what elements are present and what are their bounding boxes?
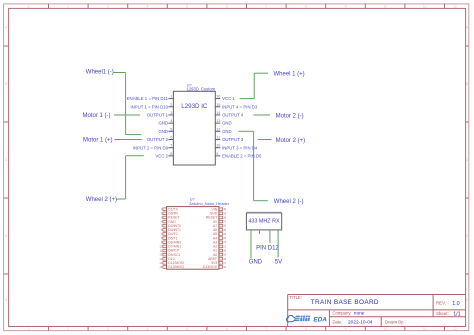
svg-text:GND: GND <box>222 129 232 134</box>
wire Motor 1 (+) to OUTPUT 2 <box>115 139 142 141</box>
svg-text:INPUT 4 = PIN D3: INPUT 4 = PIN D3 <box>222 104 258 109</box>
svg-text:TITLE:: TITLE: <box>289 295 302 300</box>
svg-text:L293D IC: L293D IC <box>181 103 208 110</box>
svg-text:7: 7 <box>265 327 267 331</box>
svg-text:GND: GND <box>249 260 263 266</box>
wire Wheel 2 (+) vertical <box>125 156 127 199</box>
header pin 15 (D12/MISO) <box>159 265 184 269</box>
svg-text:VCC 2: VCC 2 <box>155 153 168 158</box>
svg-text:6: 6 <box>226 5 228 9</box>
svg-text:5: 5 <box>161 224 163 228</box>
svg-text:23: 23 <box>223 236 226 240</box>
svg-text:20: 20 <box>223 249 226 253</box>
svg-text:4: 4 <box>147 5 149 9</box>
svg-text:Drawn By:: Drawn By: <box>385 320 404 325</box>
svg-text:433 MHZ RX: 433 MHZ RX <box>248 218 280 224</box>
IC pin 5 (GND) <box>158 127 173 134</box>
svg-text:Wheel1 (-): Wheel1 (-) <box>86 70 114 76</box>
svg-text:E: E <box>5 298 7 302</box>
svg-text:8: 8 <box>305 327 307 331</box>
RF pin 2 stub <box>259 230 261 234</box>
svg-text:9: 9 <box>161 240 163 244</box>
svg-text:11: 11 <box>423 5 427 9</box>
header pin 7 (D4/T0) <box>161 232 178 236</box>
header pin 11 (D8/ICP) <box>160 249 180 253</box>
IC pin 13 (GND) <box>215 119 231 126</box>
svg-text:22: 22 <box>223 240 226 244</box>
svg-text:3: 3 <box>170 111 172 115</box>
logo glyph 2 <box>300 316 305 322</box>
header pin 3 (RESET) <box>161 215 180 219</box>
RF pin 1 wire to GND <box>250 230 252 259</box>
IC pin 9 (ENABLE 2 = PIN D5) <box>215 152 262 159</box>
svg-text:5: 5 <box>170 127 172 131</box>
svg-text:11: 11 <box>160 249 163 253</box>
header pin 13 (D10) <box>159 257 174 261</box>
svg-text:15: 15 <box>216 103 220 107</box>
header pin 5 (D2/INT0) <box>161 224 181 228</box>
svg-text:2: 2 <box>161 211 163 215</box>
border tick marks left/right <box>4 46 469 274</box>
svg-text:Sheet:: Sheet: <box>436 311 449 316</box>
header pin 17 (3V3) <box>211 261 226 265</box>
svg-text:8: 8 <box>170 152 172 156</box>
svg-text:Arduino_Nano_Header: Arduino_Nano_Header <box>189 201 230 206</box>
header pin 1 (D1/TX) <box>161 207 179 211</box>
IC pin 4 (GND) <box>158 119 173 126</box>
header pin 12 (D9/OC1) <box>159 253 180 257</box>
svg-text:27: 27 <box>223 220 226 224</box>
svg-text:INPUT 1 = PIN D10: INPUT 1 = PIN D10 <box>130 104 168 109</box>
svg-text:9: 9 <box>345 5 347 9</box>
svg-text:29: 29 <box>223 211 226 215</box>
svg-text:30: 30 <box>223 207 226 211</box>
svg-text:26: 26 <box>223 224 226 228</box>
svg-text:D: D <box>5 234 8 238</box>
svg-text:1.0: 1.0 <box>452 301 460 307</box>
svg-text:7: 7 <box>265 5 267 9</box>
header pin 29 (GND) <box>210 211 227 215</box>
logo glyph 1 <box>295 316 300 322</box>
header pin 23 (A4) <box>213 236 227 240</box>
svg-text:9: 9 <box>345 327 347 331</box>
header pin 20 (A1) <box>213 249 227 253</box>
header pin 18 (AREF) <box>208 257 226 261</box>
wire Wheel 2 (-) vertical <box>253 131 255 200</box>
svg-text:4: 4 <box>147 327 149 331</box>
svg-text:EDA: EDA <box>313 316 327 323</box>
svg-text:REV:: REV: <box>436 301 446 306</box>
header pin 6 (D3/INT1) <box>161 228 181 232</box>
wire Motor 1 (-) to OUTPUT 1 <box>114 114 140 116</box>
svg-text:Wheel 1 (+): Wheel 1 (+) <box>274 71 305 77</box>
svg-text:5V: 5V <box>275 260 282 266</box>
header pin 25 (A6) <box>213 228 227 232</box>
svg-text:5: 5 <box>186 5 188 9</box>
wire VCC 1 horizontal <box>240 98 255 100</box>
IC pin 3 (OUTPUT 1) <box>147 111 174 118</box>
svg-text:6: 6 <box>226 327 228 331</box>
svg-text:10: 10 <box>383 327 387 331</box>
IC pin 8 (VCC 2) <box>155 152 173 159</box>
svg-text:24: 24 <box>223 232 226 236</box>
logo cloud icon <box>287 315 296 321</box>
svg-text:6: 6 <box>170 136 172 140</box>
svg-text:8: 8 <box>305 5 307 9</box>
wire Wheel 2 (-) horizontal bottom <box>254 200 268 202</box>
wire Wheel 2 (+) to VCC 2 <box>126 155 144 157</box>
svg-text:E: E <box>466 298 468 302</box>
svg-text:28: 28 <box>223 215 226 219</box>
svg-text:12: 12 <box>453 327 457 331</box>
IC pin 6 (OUTPUT 2) <box>147 136 174 143</box>
IC pin 1 (ENABLE 1 = PIN D11) <box>127 95 174 102</box>
RF module 433MHZ RX body <box>246 213 281 230</box>
logo glyph 3 <box>305 316 310 322</box>
svg-text:7: 7 <box>170 144 172 148</box>
svg-text:17: 17 <box>223 261 226 265</box>
svg-text:11: 11 <box>216 136 220 140</box>
wire Wheel 2 (+) horizontal <box>116 198 125 200</box>
svg-text:VCC 1: VCC 1 <box>222 96 235 101</box>
wire Wheel 1 (+) vertical <box>253 73 255 98</box>
svg-text:GND: GND <box>158 121 168 126</box>
header pin 8 (D5/T1) <box>161 236 178 240</box>
svg-text:12: 12 <box>159 253 162 257</box>
IC pin 12 (GND) <box>215 127 231 134</box>
svg-text:19: 19 <box>223 253 226 257</box>
header pin 9 (D6/AIN0) <box>161 240 181 244</box>
svg-text:13: 13 <box>159 257 162 261</box>
svg-text:D13/SCK: D13/SCK <box>203 265 218 269</box>
svg-text:21: 21 <box>223 244 226 248</box>
svg-text:18: 18 <box>223 257 226 261</box>
svg-text:1: 1 <box>28 5 30 9</box>
header pin 10 (D7/AIN1) <box>159 244 181 248</box>
wire Motor 2 (+) to OUTPUT 3 <box>258 139 272 141</box>
svg-text:10: 10 <box>216 144 220 148</box>
IC pin 14 (OUTPUT 4) <box>215 111 244 118</box>
svg-text:C: C <box>5 158 8 162</box>
header pin 26 (A7) <box>213 224 227 228</box>
svg-text:OUTPUT 1: OUTPUT 1 <box>147 113 169 118</box>
svg-text:GND: GND <box>222 121 232 126</box>
wire Motor 2 (-) to OUTPUT 4 <box>253 114 270 116</box>
IC pin 7 (INPUT 2 = PIN D9) <box>133 144 174 151</box>
svg-text:Date:: Date: <box>333 319 343 324</box>
svg-text:INPUT 2 = PIN D9: INPUT 2 = PIN D9 <box>133 145 169 150</box>
RF pin 3 wire to PIN D12 <box>269 230 271 243</box>
header pin 28 (RESET) <box>206 215 227 219</box>
svg-text:2022-10-04: 2022-10-04 <box>348 319 373 325</box>
svg-text:INPUT 3 = PIN D4: INPUT 3 = PIN D4 <box>222 145 258 150</box>
svg-text:OUTPUT 2: OUTPUT 2 <box>147 137 169 142</box>
svg-text:OUTPUT 3: OUTPUT 3 <box>222 137 244 142</box>
RF module top accent <box>247 211 281 213</box>
header pin 21 (A2) <box>213 244 227 248</box>
svg-text:OUTPUT 4: OUTPUT 4 <box>222 113 244 118</box>
svg-text:B: B <box>5 82 7 86</box>
IC pin 10 (INPUT 3 = PIN D4) <box>215 144 258 151</box>
svg-text:3: 3 <box>107 327 109 331</box>
svg-text:ENABLE 1 = PIN D11: ENABLE 1 = PIN D11 <box>127 96 169 101</box>
header pin 30 (VIN) <box>212 207 227 211</box>
svg-text:8: 8 <box>161 236 163 240</box>
header pin 16 (D13/SCK) <box>203 265 227 269</box>
wire Wheel1(-) to pin area <box>126 134 142 136</box>
svg-text:D12/MISO: D12/MISO <box>168 265 184 269</box>
title block outline <box>288 295 466 327</box>
svg-text:2: 2 <box>67 5 69 9</box>
header pin 14 (D11/MOSI) <box>159 261 184 265</box>
svg-text:2: 2 <box>67 327 69 331</box>
svg-text:Motor 2 (+): Motor 2 (+) <box>276 138 306 144</box>
svg-text:12: 12 <box>453 5 457 9</box>
svg-text:PIN D12: PIN D12 <box>256 245 279 251</box>
svg-text:16: 16 <box>216 95 220 99</box>
wire Wheel1(-) vertical <box>125 73 127 135</box>
wire GND pin12 horizontal <box>239 130 254 132</box>
svg-text:TRAIN BASE BOARD: TRAIN BASE BOARD <box>311 299 379 306</box>
svg-text:3: 3 <box>107 5 109 9</box>
svg-text:1: 1 <box>170 95 172 99</box>
svg-text:10: 10 <box>383 5 387 9</box>
svg-text:Motor 2 (-): Motor 2 (-) <box>276 114 304 120</box>
svg-text:9: 9 <box>216 152 218 156</box>
svg-text:B: B <box>466 82 468 86</box>
svg-text:Wheel 2 (-): Wheel 2 (-) <box>274 199 304 205</box>
header body <box>167 207 219 270</box>
logo glyph detail lines <box>295 316 310 322</box>
IC pin 2 (INPUT 1 = PIN D10) <box>130 103 173 110</box>
IC pin 11 (OUTPUT 3) <box>215 136 244 143</box>
svg-text:Company:: Company: <box>333 310 352 315</box>
svg-text:13: 13 <box>216 119 220 123</box>
svg-text:12: 12 <box>216 127 220 131</box>
svg-text:Wheel 2 (+): Wheel 2 (+) <box>86 197 117 203</box>
svg-text:A: A <box>5 25 8 29</box>
header pin 24 (A5) <box>213 232 227 236</box>
svg-text:7: 7 <box>161 232 163 236</box>
svg-text:Motor 1 (-): Motor 1 (-) <box>83 113 111 119</box>
header pin 2 (D0/RX) <box>161 211 179 215</box>
header pin 4 (GND) <box>161 220 177 224</box>
svg-text:5: 5 <box>186 327 188 331</box>
svg-text:4: 4 <box>170 119 172 123</box>
svg-text:11: 11 <box>423 327 427 331</box>
svg-text:4: 4 <box>161 220 163 224</box>
svg-text:14: 14 <box>159 261 162 265</box>
svg-text:1: 1 <box>28 327 30 331</box>
svg-text:10: 10 <box>159 244 162 248</box>
svg-text:2: 2 <box>170 103 172 107</box>
svg-text:3: 3 <box>161 215 163 219</box>
svg-text:6: 6 <box>161 228 163 232</box>
svg-text:25: 25 <box>223 228 226 232</box>
svg-text:GND: GND <box>158 129 168 134</box>
svg-text:14: 14 <box>216 111 220 115</box>
header pin 22 (A3) <box>213 240 227 244</box>
wire Wheel1(-) horizontal <box>113 72 125 74</box>
RF pin 4 wire to 5V <box>277 230 279 258</box>
wire Wheel 1 (+) horizontal top <box>254 72 268 74</box>
svg-text:16: 16 <box>223 265 226 269</box>
svg-text:ENABLE 2 = PIN D5: ENABLE 2 = PIN D5 <box>222 153 262 158</box>
IC U? L293D body <box>173 91 215 165</box>
svg-text:none: none <box>354 311 365 316</box>
svg-text:1: 1 <box>161 207 163 211</box>
svg-text:Motor 1 (+): Motor 1 (+) <box>83 138 113 144</box>
header pin 27 (5V) <box>213 220 227 224</box>
svg-text:1/1: 1/1 <box>453 311 461 317</box>
header pin 19 (A0) <box>213 253 227 257</box>
svg-text:15: 15 <box>159 265 162 269</box>
IC pin 16 (VCC 1) <box>215 95 235 102</box>
IC pin 15 (INPUT 4 = PIN D3) <box>215 103 258 110</box>
